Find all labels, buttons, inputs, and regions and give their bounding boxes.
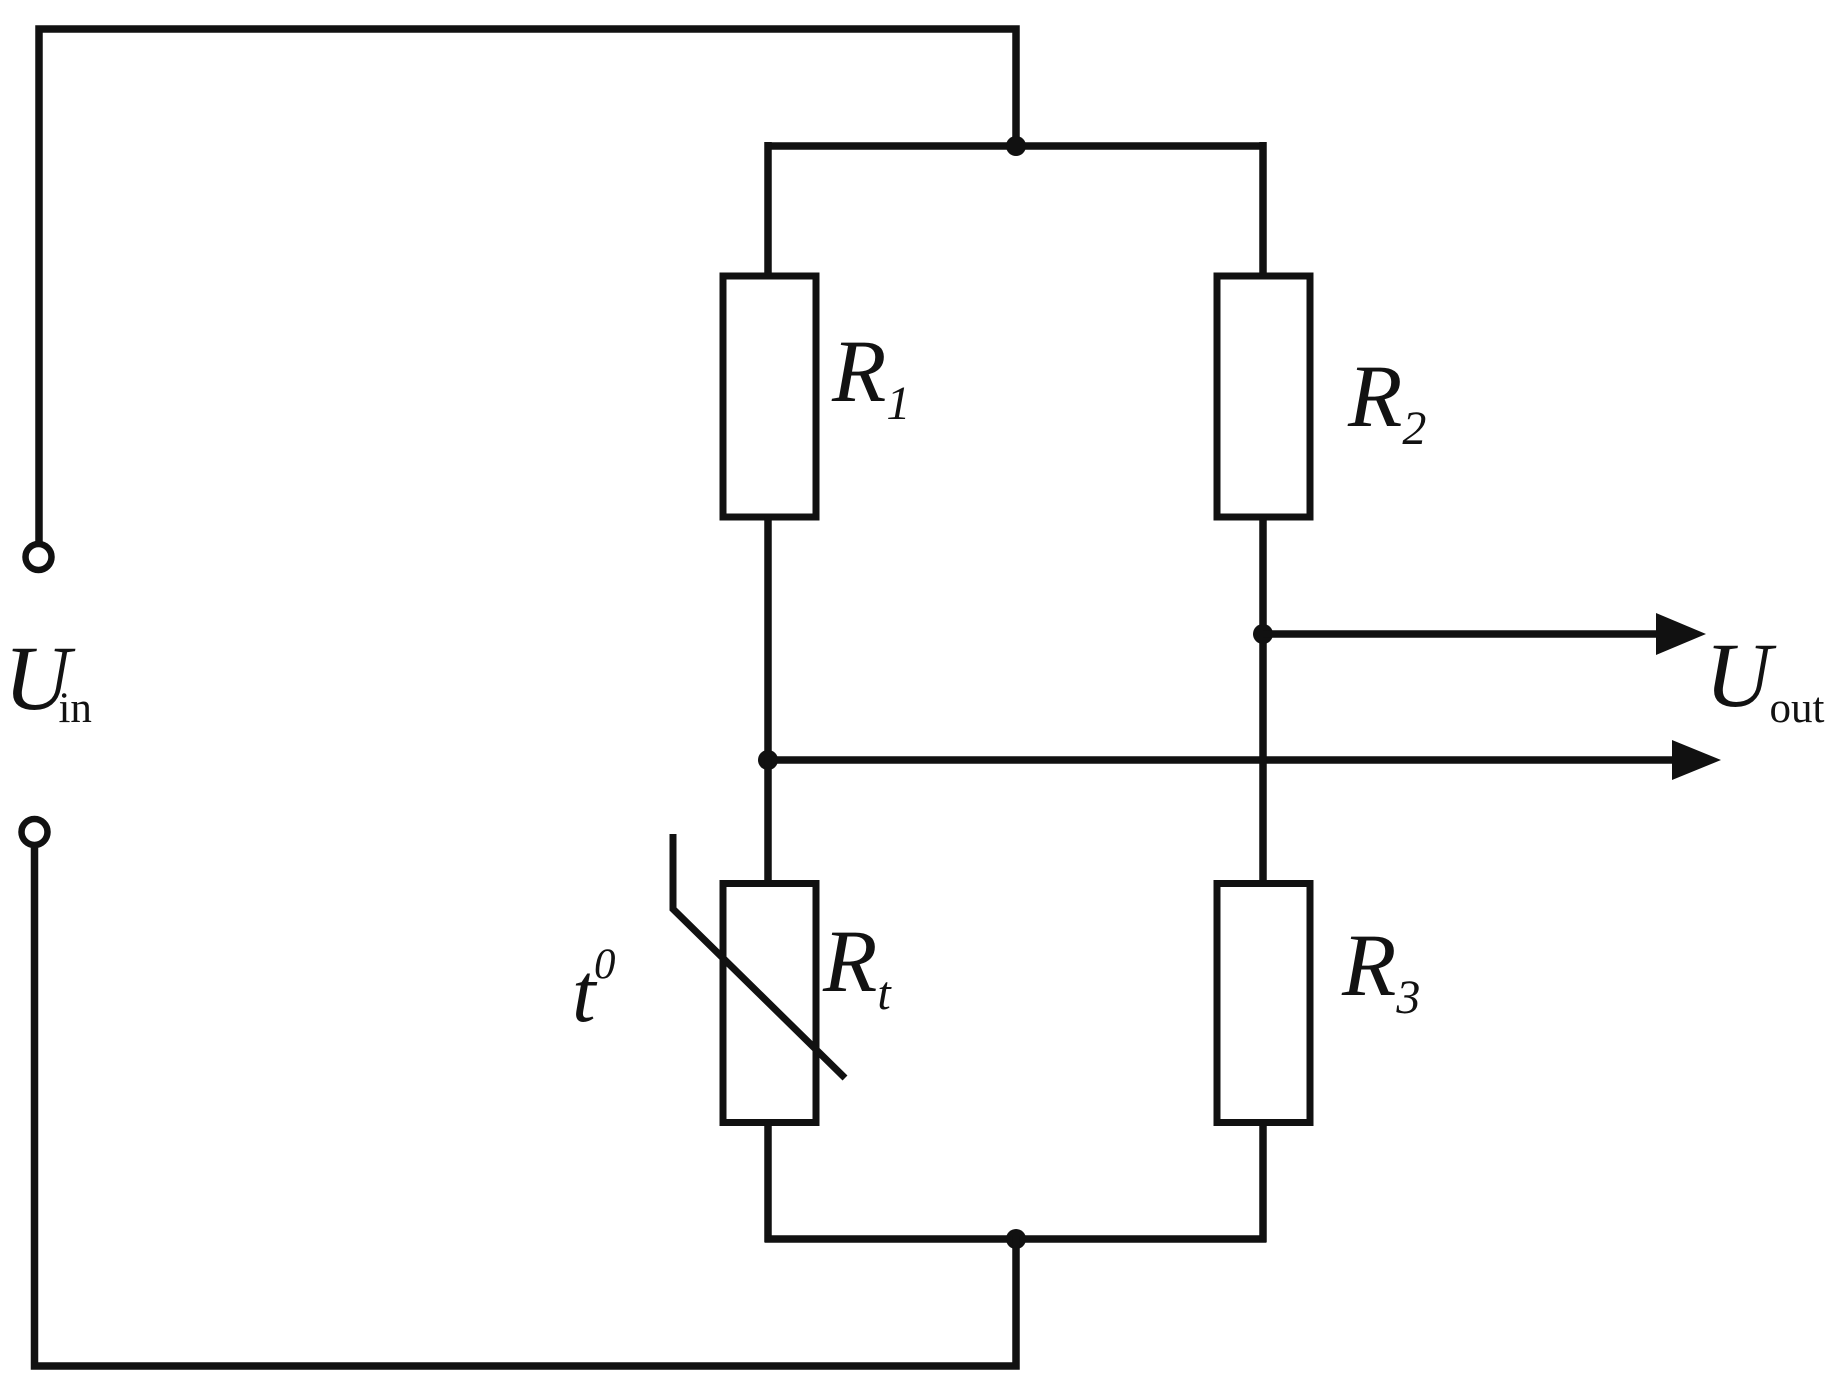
wire: output line from right mid junction: [1263, 630, 1665, 638]
wire: bridge bottom rail: [765, 1235, 1267, 1243]
thermistor diagonal stroke: [673, 834, 845, 1078]
node: left mid junction: [758, 750, 778, 770]
terminal: Uin upper: [26, 544, 52, 570]
node: top bridge junction: [1006, 136, 1026, 156]
wire: output line from left mid junction: [768, 756, 1680, 764]
wire: input run from Uin upper terminal up, across the top, down to top node: [39, 29, 1016, 545]
node: bottom bridge junction: [1006, 1229, 1026, 1249]
wire: bridge top rail: [765, 142, 1267, 150]
wire: R1 bottom lead: [764, 517, 772, 763]
wire: R3 bottom lead: [1259, 1122, 1267, 1242]
svg-text:0: 0: [594, 941, 616, 988]
wire: R1 top lead: [764, 142, 772, 276]
arrowhead of upper output line: [1656, 613, 1706, 655]
wire: R2 top lead: [1259, 142, 1267, 276]
wire: bottom run from bottom node down, across to the left, up to Uin lower terminal: [35, 848, 1017, 1366]
wire: Rt bottom lead: [764, 1122, 772, 1242]
resistor R1: [723, 276, 816, 517]
wire: Rt top lead: [764, 757, 772, 880]
arrowhead of lower output line: [1672, 740, 1721, 780]
resistor R3: [1217, 884, 1310, 1123]
node: right mid junction (between R2 and R3): [1253, 624, 1273, 644]
resistor R2: [1217, 276, 1310, 517]
terminal: Uin lower: [22, 819, 48, 845]
wire: vertical run between R2 and R3: [1259, 517, 1267, 884]
resistor Rt (thermistor body): [723, 884, 816, 1123]
